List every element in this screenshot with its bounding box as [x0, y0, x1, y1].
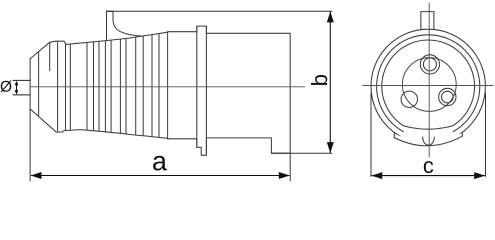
extension line right for c: [485, 93, 487, 177]
label a: [153, 156, 167, 171]
front view tab: [421, 12, 434, 30]
dimension line c: [372, 175, 485, 177]
extension line left for a: [29, 109, 31, 181]
left pin: [401, 91, 417, 107]
dimension line b: [329, 12, 331, 153]
extension line right for a: [289, 153, 291, 181]
side view body outline: [30, 26, 290, 155]
front view middle ring: [377, 35, 480, 138]
extension line top for b: [107, 10, 333, 12]
label b: [311, 75, 327, 85]
keyway cup mask: [423, 136, 435, 143]
keyway left ear: [393, 133, 395, 138]
keyway mask: [392, 133, 464, 158]
pin carrier circle: [402, 58, 456, 112]
right pin outer: [439, 88, 456, 105]
diameter extension lines: [13, 79, 31, 81]
front view horizontal centerline: [363, 85, 494, 87]
diameter symbol: [0, 80, 11, 92]
fillet arc of tab: [113, 21, 142, 36]
right pin inner: [442, 91, 454, 103]
extension line left for c: [370, 93, 372, 177]
keyway right ear: [461, 132, 463, 137]
dimension line a: [31, 175, 289, 177]
diameter arrow: [16, 83, 18, 93]
top tab of side view: [107, 11, 114, 40]
earth pin inner: [423, 58, 436, 71]
front view outer ring: [371, 29, 485, 143]
front view inner face ring: [382, 40, 475, 133]
keyway recess arc: [404, 126, 453, 130]
side view centerline: [30, 86, 305, 88]
keyway recess mask: [404, 126, 453, 139]
front view vertical centerline: [428, 3, 430, 158]
earth pin outer: [420, 55, 439, 74]
collar left edge: [196, 26, 198, 147]
label c: [424, 161, 433, 173]
extension line bottom for b: [271, 152, 332, 154]
keyway bump arc: [394, 136, 462, 146]
rib lines of grip: [39, 32, 168, 138]
keyway cup: [423, 137, 435, 146]
collar right edge: [205, 26, 207, 155]
